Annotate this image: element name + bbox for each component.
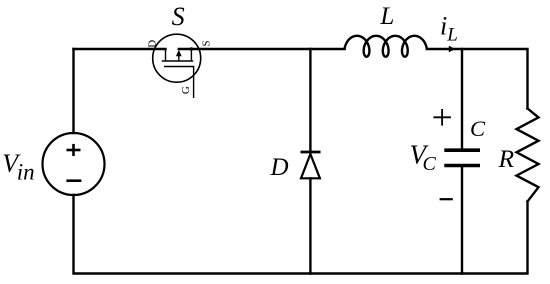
svg-text:S: S [201,40,213,46]
svg-text:L: L [446,25,458,46]
svg-text:R: R [498,144,515,173]
svg-text:S: S [172,2,185,31]
svg-text:C: C [423,153,437,175]
svg-text:G: G [180,86,192,94]
svg-text:i: i [440,12,447,41]
svg-text:D: D [146,40,158,48]
svg-text:C: C [470,116,486,141]
svg-text:L: L [379,3,394,30]
svg-text:in: in [17,159,35,184]
svg-text:D: D [270,154,289,181]
